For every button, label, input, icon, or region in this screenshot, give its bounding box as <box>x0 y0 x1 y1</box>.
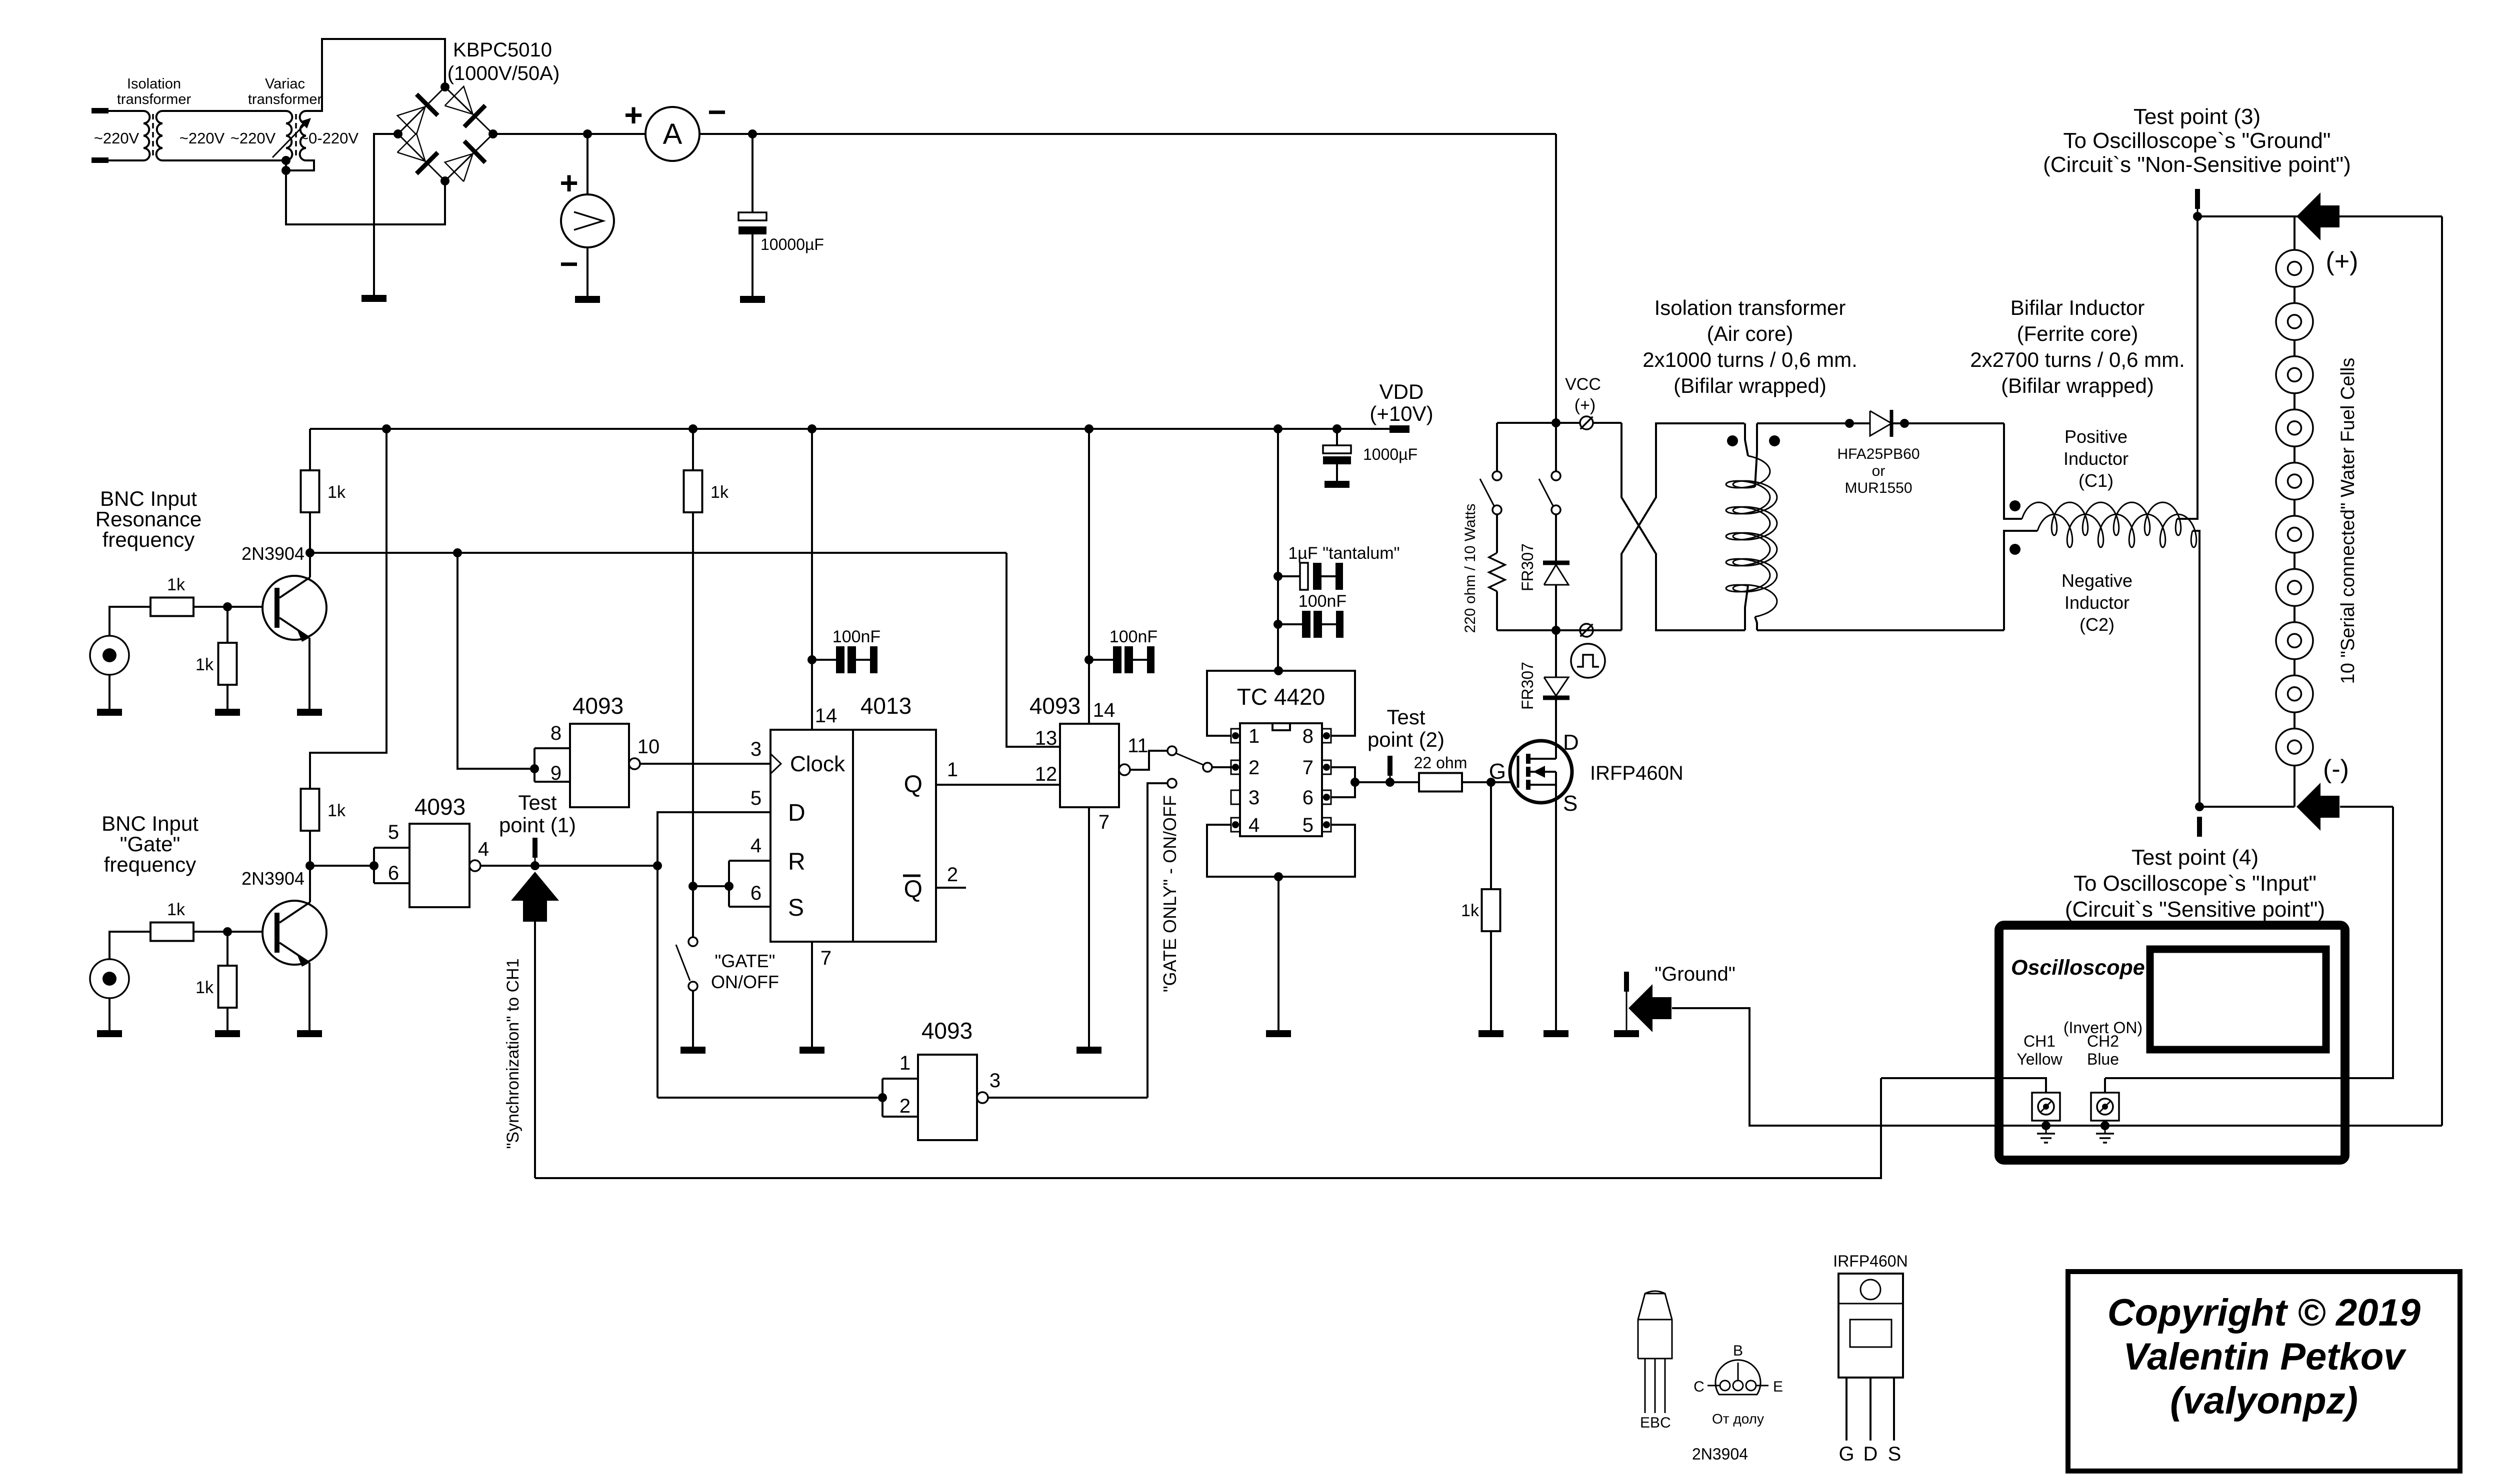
svg-text:(1000V/50A): (1000V/50A) <box>447 62 560 84</box>
ground J1 <box>97 709 122 716</box>
wire 4093c pin14 to VDD <box>1088 429 1090 724</box>
resistor R 1k divider VDD <box>692 429 694 470</box>
diode bridge D left-top <box>397 106 425 134</box>
wire tp4 to arrow <box>2199 806 2294 808</box>
svg-text:3: 3 <box>750 738 761 760</box>
node feed 4093a inputs <box>453 548 462 557</box>
node bridge left <box>393 129 402 138</box>
svg-text:"Gate": "Gate" <box>120 832 180 856</box>
terminal VCC return <box>1580 624 1593 637</box>
transformer T2 variac core <box>295 114 297 159</box>
svg-text:Clock: Clock <box>790 752 845 776</box>
wire Q2 emitter ground <box>308 963 310 1030</box>
svg-text:Test: Test <box>1386 705 1425 729</box>
svg-text:1: 1 <box>899 1052 910 1074</box>
node VCC return <box>1551 626 1560 635</box>
wire top bus down to VCC <box>1555 134 1557 423</box>
svg-text:Positive: Positive <box>2064 426 2127 447</box>
svg-text:C: C <box>1660 1415 1671 1431</box>
svg-text:4: 4 <box>1248 814 1259 836</box>
wire 4093c output to switch <box>1130 751 1167 770</box>
diode FR307 upper <box>1555 514 1557 563</box>
wire CH1 shield <box>2045 1121 2047 1126</box>
ground voltmeter <box>575 296 600 303</box>
svg-text:~220V: ~220V <box>230 129 276 147</box>
wire TC4420 gnd down <box>1277 877 1279 1030</box>
node test point 2 <box>1385 778 1394 787</box>
svg-text:point (1): point (1) <box>499 813 576 837</box>
wire 4093d input bracket <box>881 1079 883 1117</box>
wire T3 secondary bottom rail <box>1757 629 2004 631</box>
svg-text:11: 11 <box>1127 735 1148 757</box>
svg-text:To Oscilloscope`s "Ground": To Oscilloscope`s "Ground" <box>2063 128 2330 153</box>
capacitor C 1000uF <box>1332 424 1341 433</box>
node TC4420 VDD <box>1274 666 1283 675</box>
svg-text:10: 10 <box>637 736 660 758</box>
svg-text:or: or <box>1872 463 1885 479</box>
node RS tie left <box>688 882 697 891</box>
svg-text:4093: 4093 <box>572 693 623 719</box>
wire T1 secondary to variac bottom <box>162 159 286 161</box>
svg-text:CH2: CH2 <box>2087 1032 2119 1050</box>
switch S2 contacts <box>1551 471 1560 480</box>
svg-text:8: 8 <box>550 722 561 744</box>
svg-text:B: B <box>1650 1415 1660 1431</box>
arrow test point 1 <box>511 872 559 922</box>
diode bridge D top-right <box>445 86 473 114</box>
wire 4093c pin7 ground <box>1088 807 1090 1047</box>
node Q2 collector <box>305 861 314 870</box>
svg-text:Test point (3): Test point (3) <box>2133 104 2260 129</box>
wire L2 to test point 4 riser <box>2192 531 2199 807</box>
node test point 3 <box>2193 212 2202 221</box>
svg-text:1k: 1k <box>1461 901 1479 920</box>
node VDD 4013 pin14 <box>807 424 816 433</box>
svg-text:2: 2 <box>899 1095 910 1117</box>
resistor R 220 ohm zigzag <box>1496 514 1498 553</box>
ground Q1 emitter <box>297 709 322 716</box>
terminal VCC <box>1580 416 1593 429</box>
svg-text:+: + <box>624 97 642 133</box>
flip-flop U 4013 <box>770 730 936 942</box>
wire Q to 4093c pin12 <box>936 784 1060 786</box>
wire test point 3 bus <box>2197 215 2442 217</box>
wire lower rail <box>1497 629 1621 631</box>
test point 3 bar <box>2195 189 2200 209</box>
ground symbol under arrow <box>1614 1030 1639 1037</box>
node D test point tie <box>653 861 662 870</box>
node diode anode <box>1845 419 1854 428</box>
svg-text:"Ground": "Ground" <box>1654 963 1735 985</box>
capacitor C 100nF 4093c <box>1089 659 1113 661</box>
package TO-92 3D view <box>1638 1294 1672 1359</box>
pin 3 TC4420 <box>1231 790 1240 804</box>
node Q1 base <box>223 602 232 611</box>
wire sync bottom run <box>535 1078 1881 1178</box>
transformer T1 isolation primary winding <box>143 111 149 160</box>
svg-text:Test point (4): Test point (4) <box>2131 845 2258 870</box>
capacitor C 100nF TC4420 <box>1278 623 1302 625</box>
svg-text:1k: 1k <box>167 575 185 594</box>
ground Q2 emitter <box>297 1030 322 1037</box>
phase dot L2 <box>2009 544 2020 555</box>
svg-text:Negative: Negative <box>2061 570 2132 591</box>
4013 clock input triangle <box>770 754 781 774</box>
svg-text:frequency: frequency <box>102 528 194 551</box>
node test point 1 <box>530 861 539 870</box>
node bridge right <box>488 129 497 138</box>
svg-text:KBPC5010: KBPC5010 <box>453 39 552 61</box>
wire bridge left to ground <box>374 134 398 295</box>
wire 4093b output to test point 1 <box>480 865 657 867</box>
wire 4093a out to 4013 clock <box>640 763 770 765</box>
ground 1k gate <box>1478 1030 1503 1037</box>
wire base pulldown <box>226 607 228 643</box>
resistor R 1k collector load Q1 <box>309 512 311 553</box>
wire VDD to Q2 collector resistor <box>310 429 386 789</box>
copyright box <box>2068 1272 2460 1471</box>
transistor Q1 2N3904 <box>262 576 326 640</box>
svg-text:13: 13 <box>1035 727 1057 749</box>
wire MOSFET source to ground <box>1555 803 1557 1030</box>
switch S1 contacts <box>1492 471 1501 480</box>
svg-text:5: 5 <box>388 821 399 843</box>
svg-text:Inductor: Inductor <box>2064 592 2129 613</box>
node 4093b input tie <box>369 861 378 870</box>
svg-text:D: D <box>1563 730 1579 755</box>
node VDD TC4420 riser <box>1273 424 1282 433</box>
node MOSFET gate <box>1486 778 1495 787</box>
svg-text:220 ohm / 10 Watts: 220 ohm / 10 Watts <box>1462 503 1478 633</box>
BNC connector J1 <box>90 636 129 675</box>
package IRFP460N TO-247 <box>1838 1274 1903 1378</box>
svg-text:3: 3 <box>989 1070 1000 1092</box>
resistor R 1k series gate <box>150 923 193 941</box>
wire TC4420 outputs tie <box>1331 767 1355 797</box>
driver U TC4420 <box>1240 723 1322 836</box>
transformer T1 core <box>152 114 154 159</box>
svg-text:2: 2 <box>947 864 958 886</box>
node VDD 1000uF <box>1332 424 1341 433</box>
transformer T2 variac primary winding <box>286 111 292 160</box>
wire J2 to R <box>109 932 150 959</box>
svg-text:100nF: 100nF <box>832 627 880 646</box>
svg-text:B: B <box>1733 1343 1743 1359</box>
wire VDD rail <box>310 428 1408 430</box>
wire 4013 pin7 ground <box>811 942 813 1047</box>
ground pulldown gate <box>215 1030 240 1037</box>
transistor Q3 IRFP460N <box>1510 741 1572 803</box>
test point 2 bar <box>1387 756 1392 776</box>
svg-text:(Bifilar wrapped): (Bifilar wrapped) <box>1673 374 1826 397</box>
svg-text:100nF: 100nF <box>1298 592 1346 611</box>
svg-text:Test: Test <box>518 791 556 814</box>
resistor R 1k gate pulldown <box>1490 782 1492 889</box>
node 1uF tap <box>1273 572 1282 581</box>
ground MOSFET source <box>1543 1030 1568 1037</box>
resistor R 1k pulldown resonance <box>218 643 237 685</box>
node 4093d input <box>878 1093 887 1102</box>
svg-text:(Bifilar wrapped): (Bifilar wrapped) <box>2001 374 2154 397</box>
svg-text:VDD: VDD <box>1379 380 1424 403</box>
wire voltmeter to ground <box>586 247 588 296</box>
wire TC4420 VDD box <box>1207 671 1355 736</box>
svg-text:6: 6 <box>750 882 761 904</box>
capacitor C 10000uF <box>738 212 766 220</box>
svg-text:Isolation transformer: Isolation transformer <box>1654 296 1846 319</box>
test point 4 bar <box>2197 817 2202 837</box>
svg-text:12: 12 <box>1035 763 1057 785</box>
svg-text:(valyonpz): (valyonpz) <box>2170 1380 2358 1422</box>
wire TC4420 output to gate resistor <box>1355 781 1419 783</box>
ground J2 <box>97 1030 122 1037</box>
svg-text:frequency: frequency <box>104 853 196 876</box>
svg-text:6: 6 <box>1302 787 1313 809</box>
pin 1 TC4420 <box>1231 729 1240 743</box>
svg-text:2: 2 <box>1248 757 1259 779</box>
variac wiper arrow <box>272 120 309 157</box>
node variac bottom junction 2 <box>281 166 290 175</box>
pin 5 TC4420 <box>1322 818 1331 832</box>
nand gate 4093b <box>409 824 469 907</box>
pin 7 TC4420 <box>1322 760 1331 774</box>
wire bridge output to ammeter <box>493 133 645 135</box>
wire negative to CH2 riser <box>2340 806 2393 808</box>
wire crossover B <box>1621 423 1745 630</box>
switch GATE ON OFF <box>688 937 697 946</box>
wire collector Q1 row <box>310 552 1006 554</box>
svg-text:(Air core): (Air core) <box>1707 322 1793 345</box>
diode FR307 lower <box>1544 677 1568 696</box>
wire R to base Q1 <box>193 606 273 608</box>
svg-text:S: S <box>1563 791 1577 816</box>
svg-text:Q: Q <box>904 876 922 903</box>
svg-text:G: G <box>1838 1443 1854 1465</box>
wire Q2 collector <box>309 866 311 902</box>
svg-text:BNC Input: BNC Input <box>100 487 197 510</box>
wire J1 shield to ground <box>108 675 110 709</box>
svg-text:"Synchronization" to CH1: "Synchronization" to CH1 <box>503 958 522 1149</box>
wire cap 10000uF from bus <box>751 134 753 212</box>
wire pulldown to ground <box>226 685 228 709</box>
wire switch common to TC4420 pin2 <box>1212 766 1233 768</box>
wire right bus down <box>2441 216 2443 1126</box>
svg-text:To Oscilloscope`s "Input": To Oscilloscope`s "Input" <box>2073 871 2316 896</box>
svg-text:Blue: Blue <box>2087 1050 2119 1068</box>
wire diode to bifilar inductor <box>1904 422 2004 424</box>
pin 4 TC4420 <box>1231 818 1240 832</box>
svg-text:4093: 4093 <box>414 794 465 820</box>
svg-text:2N3904: 2N3904 <box>241 543 304 564</box>
wire voltmeter from bus <box>586 134 588 195</box>
transformer T3 primary coil <box>1726 456 1770 592</box>
water fuel cells stack <box>2276 250 2313 287</box>
svg-text:7: 7 <box>820 947 831 969</box>
svg-text:1k: 1k <box>327 801 346 820</box>
node VDD Q2 feed <box>382 424 391 433</box>
svg-text:transformer: transformer <box>248 91 322 107</box>
inductor L2 negative winding <box>2037 514 2196 547</box>
svg-text:+: + <box>559 165 578 201</box>
diode bridge D bottom-right <box>445 153 473 181</box>
inductor L1 positive winding <box>2022 502 2181 535</box>
svg-text:Q: Q <box>904 771 922 798</box>
svg-text:D: D <box>1863 1443 1878 1465</box>
wire 4093d input from D node <box>657 1097 882 1099</box>
node VDD 4093 pin14 <box>1084 424 1093 433</box>
wire Q2 collector to 4093b <box>310 865 374 867</box>
svg-text:CH1: CH1 <box>2023 1032 2055 1050</box>
wire ground arrow to scope <box>1672 1008 2442 1126</box>
capacitor C 100nF 4013 <box>812 659 836 661</box>
svg-text:E: E <box>1640 1415 1650 1431</box>
wire feed 4093a inputs <box>457 553 534 769</box>
pin 6 TC4420 <box>1322 790 1331 804</box>
svg-text:1000µF: 1000µF <box>1363 445 1417 463</box>
svg-text:FR307: FR307 <box>1518 662 1536 710</box>
wire D input <box>657 812 770 1098</box>
svg-text:(+10V): (+10V) <box>1369 402 1433 425</box>
nand gate 4093a <box>570 724 629 807</box>
svg-text:14: 14 <box>815 705 837 727</box>
node VCC <box>1551 418 1560 427</box>
wire crossover A <box>1621 423 1744 630</box>
svg-text:Copyright © 2019: Copyright © 2019 <box>2107 1292 2420 1334</box>
svg-text:~220V: ~220V <box>179 129 225 147</box>
wire Q1 collector <box>309 553 311 577</box>
node 4093c pin14 cap <box>1084 655 1093 664</box>
svg-text:4: 4 <box>750 835 761 857</box>
diode D HFA25PB60 <box>1870 411 1891 436</box>
arrow fuel cell positive <box>2296 192 2339 240</box>
svg-text:(-): (-) <box>2323 755 2349 784</box>
earth CH1 <box>2045 1126 2047 1134</box>
wire ammeter to bus <box>699 133 1556 135</box>
arrow ground <box>1628 984 1671 1032</box>
resistor R 22 ohm <box>1419 773 1462 792</box>
node diode cathode <box>1900 419 1909 428</box>
svg-text:2N3904: 2N3904 <box>1692 1445 1748 1463</box>
wire T1 secondary to variac top <box>162 110 286 112</box>
wire Q1 emitter to ground <box>308 638 310 709</box>
wire 4013 pin14 to VDD <box>811 429 813 730</box>
svg-text:(Circuit`s "Non-Sensitive poin: (Circuit`s "Non-Sensitive point") <box>2043 152 2351 177</box>
svg-text:VCC: VCC <box>1565 375 1601 394</box>
wire Qbar stub <box>936 887 966 889</box>
svg-text:От долу: От долу <box>1712 1411 1764 1427</box>
test point 1 bar <box>532 838 537 858</box>
svg-text:C: C <box>1693 1379 1704 1395</box>
svg-text:(Ferrite core): (Ferrite core) <box>2017 322 2138 345</box>
ground TC4420 <box>1266 1030 1291 1037</box>
connector CH1 <box>2032 1093 2060 1121</box>
wire variac secondary top to bridge <box>306 39 445 111</box>
svg-text:(C2): (C2) <box>2079 614 2114 635</box>
wire R S tie to divider <box>693 885 729 887</box>
svg-text:8: 8 <box>1302 725 1313 747</box>
ground cap 10000uF <box>740 296 765 303</box>
svg-text:−: − <box>707 94 726 130</box>
ground GATE switch <box>680 1047 705 1054</box>
node RS tie right <box>724 882 733 891</box>
svg-text:100nF: 100nF <box>1109 627 1157 646</box>
svg-text:1k: 1k <box>195 655 214 674</box>
svg-text:~220V: ~220V <box>94 129 139 147</box>
wire AC input bottom <box>108 159 143 161</box>
svg-text:(Circuit`s "Sensitive point"): (Circuit`s "Sensitive point") <box>2065 897 2325 922</box>
svg-text:4013: 4013 <box>860 693 911 719</box>
svg-text:1k: 1k <box>195 978 214 997</box>
svg-text:1µF "tantalum": 1µF "tantalum" <box>1288 544 1399 563</box>
package TO-92 bottom view <box>1715 1360 1760 1395</box>
wire switch tops to VCC rail <box>1496 423 1498 471</box>
node variac bottom junction 1 <box>281 156 290 165</box>
resistor R 1k series resonance <box>150 598 193 616</box>
ammeter A1 <box>645 107 699 161</box>
resistor R 1k collector load Q2 <box>301 789 319 831</box>
ground 4013 pin7 <box>799 1047 824 1054</box>
wire variac bottom to bridge bottom node <box>286 170 445 224</box>
wire 4093d output <box>988 1097 1147 1099</box>
svg-text:Inductor: Inductor <box>2063 448 2128 469</box>
svg-text:22 ohm: 22 ohm <box>1414 754 1467 772</box>
nand gate 4093c <box>1060 724 1119 807</box>
svg-text:1: 1 <box>947 759 958 781</box>
svg-text:"GATE ONLY" - ON/OFF: "GATE ONLY" - ON/OFF <box>1159 795 1180 992</box>
node bridge bottom <box>440 176 449 185</box>
svg-text:(+): (+) <box>1574 396 1596 415</box>
phase dot T3 secondary <box>1769 435 1780 446</box>
svg-text:−: − <box>559 246 578 282</box>
wire CH2 shield <box>2104 1121 2106 1126</box>
svg-text:S: S <box>1888 1443 1901 1465</box>
node 100nF tap <box>1273 620 1282 629</box>
svg-text:R: R <box>788 849 805 875</box>
svg-text:FR307: FR307 <box>1518 543 1536 591</box>
svg-text:9: 9 <box>550 762 561 784</box>
pin 2 TC4420 <box>1231 760 1240 774</box>
capacitor C 1uF tantalum <box>1278 575 1300 577</box>
svg-text:4093: 4093 <box>1029 693 1080 719</box>
svg-text:14: 14 <box>1093 699 1115 721</box>
transformer T3 secondary coil <box>1733 481 1777 617</box>
svg-text:Resonance: Resonance <box>95 507 201 531</box>
terminal AC input N <box>91 157 108 163</box>
svg-text:5: 5 <box>1302 814 1313 836</box>
wire CH1 input <box>1881 1078 2046 1093</box>
node Q1 collector <box>305 548 314 557</box>
BNC connector J2 <box>90 959 129 998</box>
svg-text:3: 3 <box>1248 787 1259 809</box>
resistor R 1k pulldown gate <box>218 966 237 1008</box>
node voltmeter tap <box>583 129 592 138</box>
terminal VDD <box>1389 425 1409 433</box>
earth CH2 <box>2104 1126 2106 1134</box>
svg-text:Bifilar Inductor: Bifilar Inductor <box>2010 296 2144 319</box>
wire AC input top <box>108 110 143 112</box>
svg-text:IRFP460N: IRFP460N <box>1590 762 1683 784</box>
svg-text:1k: 1k <box>710 483 729 502</box>
svg-text:Variac: Variac <box>265 76 305 92</box>
svg-text:7: 7 <box>1098 811 1109 833</box>
ground test bar <box>1624 972 1629 992</box>
node CH1 ground <box>2041 1121 2050 1130</box>
diode bridge D left-bottom <box>397 133 425 161</box>
svg-text:D: D <box>788 800 805 826</box>
wire switch to ground <box>692 991 694 1047</box>
wire fuel cell stack <box>2293 216 2295 807</box>
svg-text:point (2): point (2) <box>1367 728 1444 751</box>
